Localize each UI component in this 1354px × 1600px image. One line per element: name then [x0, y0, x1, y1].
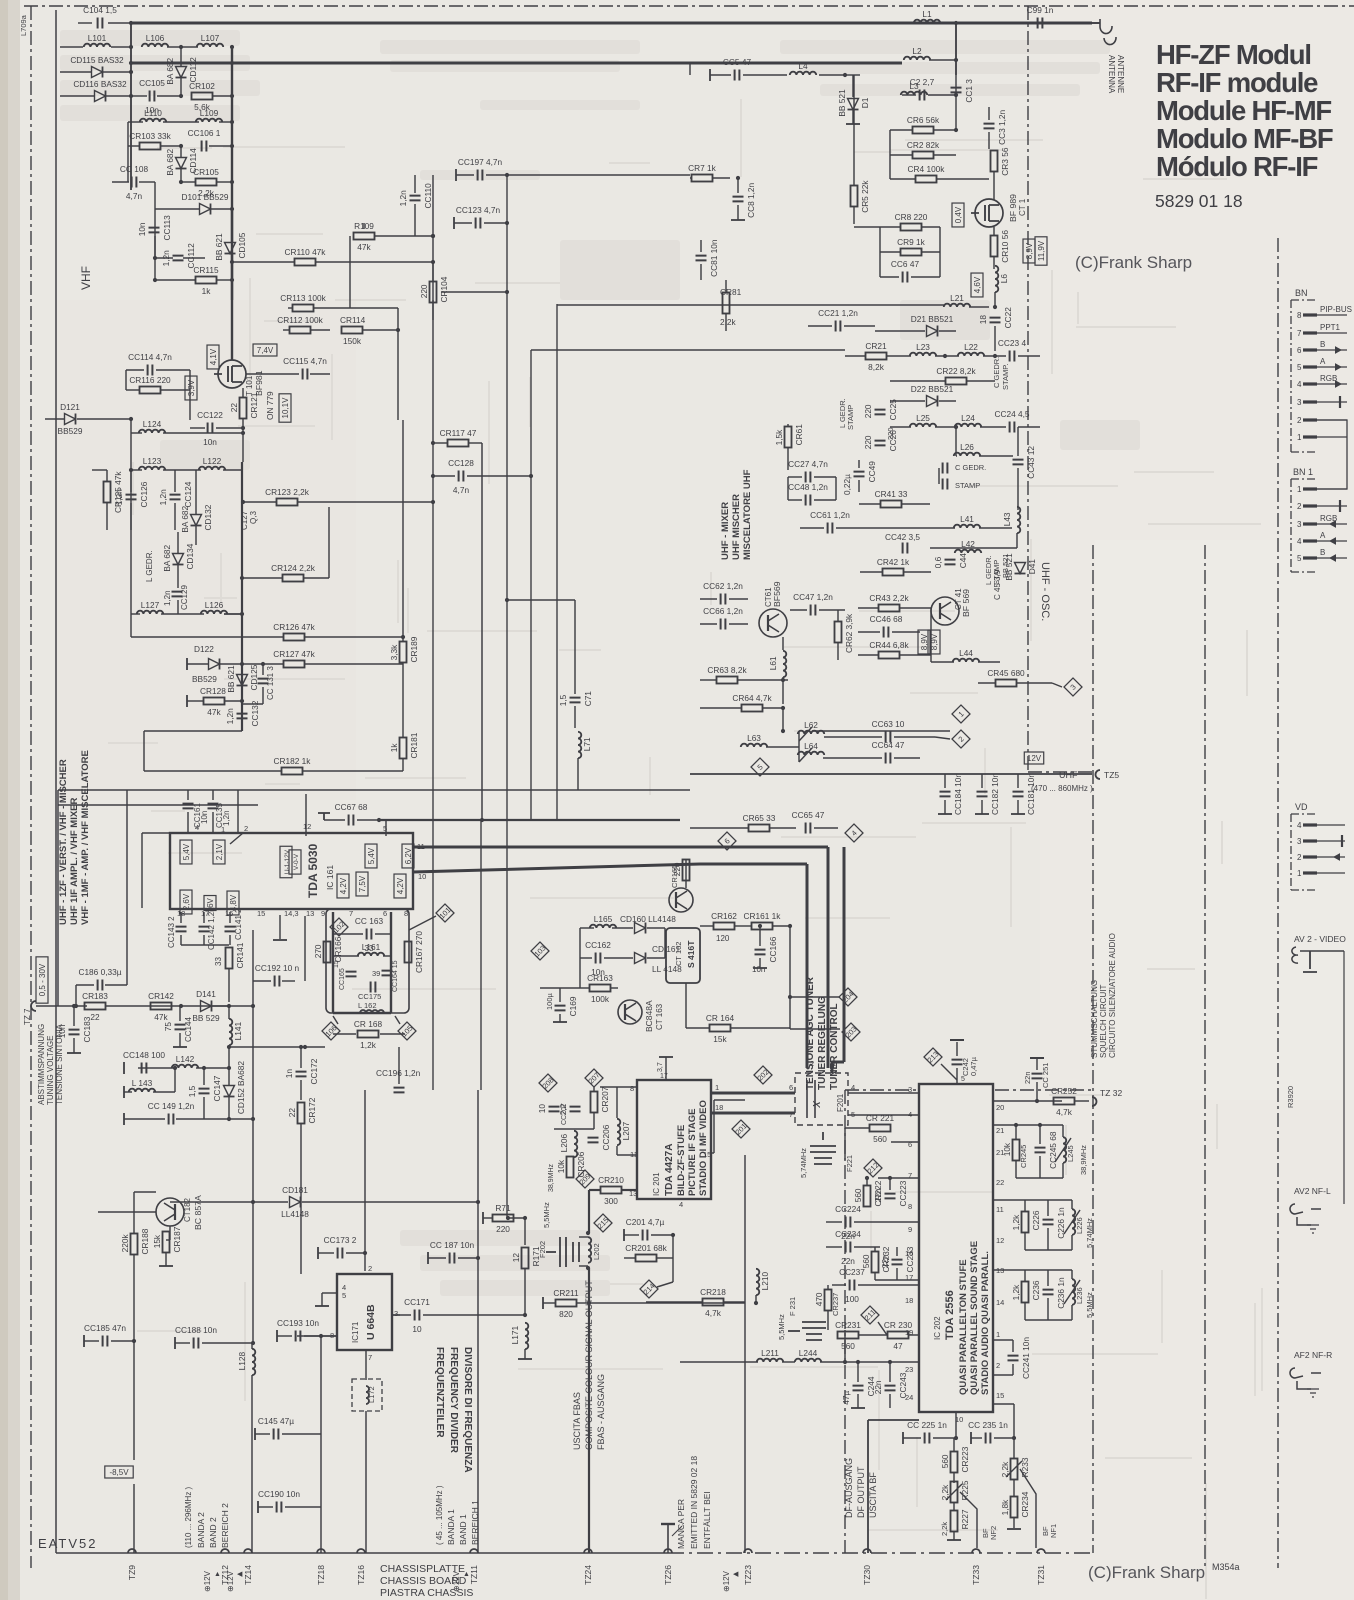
svg-text:560: 560: [873, 1134, 887, 1144]
wire: [252, 1130, 254, 1343]
junction: [240, 662, 244, 666]
resistor CR222: [864, 1186, 871, 1207]
wire: [859, 1334, 887, 1336]
wire: [320, 1336, 322, 1553]
svg-text:CR142: CR142: [148, 991, 174, 1001]
wire: [477, 1090, 479, 1278]
wire: [363, 329, 398, 331]
wire: [458, 1257, 478, 1259]
svg-text:AF2 NF-R: AF2 NF-R: [1294, 1350, 1332, 1360]
svg-text:Module HF-MF: Module HF-MF: [1156, 95, 1331, 126]
wire: [580, 927, 594, 929]
wire: [1016, 533, 1018, 548]
capacitor CC135: [208, 804, 219, 809]
resistor CR183: [85, 1003, 106, 1010]
svg-text:CR105: CR105: [193, 167, 219, 177]
wire: [848, 1114, 919, 1116]
voltage 11,9V: [1035, 237, 1047, 265]
transistor CT165: [669, 888, 693, 912]
wire: [559, 988, 561, 1002]
wire: [174, 503, 176, 530]
wire: [859, 503, 880, 505]
svg-text:CC 108: CC 108: [120, 164, 149, 174]
terminal TZ12: [220, 1549, 230, 1585]
svg-text:RF-IF module: RF-IF module: [1156, 67, 1318, 98]
junction: [781, 678, 785, 682]
wire: [130, 22, 1092, 25]
resistor CR165: [683, 860, 690, 881]
inductor L107: [197, 44, 223, 47]
wire: [689, 63, 691, 75]
wire: [379, 819, 680, 821]
junction: [179, 45, 183, 49]
diode CD132: [191, 515, 202, 526]
inductor L4: [790, 72, 816, 75]
wire: [189, 390, 191, 420]
wire: [242, 577, 282, 579]
resistor CR121: [240, 398, 247, 419]
svg-text:10k: 10k: [556, 1159, 566, 1173]
wire: [844, 1090, 846, 1553]
junction: [227, 1117, 231, 1121]
capacitor CC197: [478, 170, 483, 181]
wire: [180, 78, 182, 96]
wire: [938, 813, 952, 815]
svg-text:3: 3: [908, 1085, 912, 1094]
svg-text:10: 10: [418, 872, 426, 881]
capacitor Cgedr2: [943, 479, 948, 490]
svg-text:C169: C169: [568, 996, 578, 1016]
svg-text:CR112 100k: CR112 100k: [277, 315, 323, 325]
svg-text:1: 1: [1297, 869, 1302, 878]
svg-text:CR188: CR188: [140, 1228, 150, 1254]
wire: [456, 174, 474, 176]
wire: [889, 130, 891, 155]
junction: [401, 635, 405, 639]
svg-text:CC66 1,2n: CC66 1,2n: [703, 606, 743, 616]
wire: [253, 980, 271, 982]
svg-text:L211: L211: [761, 1348, 779, 1358]
wire: [332, 912, 334, 1013]
coil L202: [588, 1237, 591, 1263]
resistor CR188: [131, 1234, 138, 1255]
svg-text:3: 3: [1297, 398, 1302, 407]
svg-text:CR182 1k: CR182 1k: [274, 756, 312, 766]
wire: [190, 427, 205, 429]
wire: [251, 1343, 253, 1349]
wire: [574, 706, 576, 728]
wire: [557, 304, 944, 306]
wire: [195, 470, 197, 514]
test point 101: [436, 904, 454, 922]
voltage 2,1V: [213, 840, 225, 864]
svg-text:M354a: M354a: [1212, 1562, 1240, 1572]
wire: [574, 600, 576, 694]
svg-text:CR163: CR163: [587, 973, 613, 983]
wire: [154, 182, 156, 258]
capacitor CC144: [175, 1025, 186, 1030]
wire: [994, 326, 996, 351]
svg-text:4,2V: 4,2V: [396, 877, 405, 894]
svg-text:AV2 NF-L: AV2 NF-L: [1294, 1186, 1331, 1196]
wire: [1039, 1156, 1041, 1178]
capacitor CC81: [696, 256, 707, 261]
wire: [1204, 545, 1206, 1568]
wire: [735, 925, 751, 927]
capacitor CC233: [892, 1260, 903, 1265]
svg-text:ON 779: ON 779: [265, 391, 275, 420]
wire: [231, 47, 233, 360]
svg-text:NF1: NF1: [1049, 1524, 1058, 1538]
junction: [993, 354, 997, 358]
wire: [934, 154, 956, 156]
svg-text:1,2n: 1,2n: [163, 590, 172, 606]
svg-text:CR187: CR187: [172, 1226, 182, 1252]
wire: [979, 455, 1013, 457]
svg-text:CR63 8,2k: CR63 8,2k: [707, 665, 747, 675]
capacitor CC105: [150, 91, 155, 102]
resistor CR189: [400, 642, 407, 663]
wire: [302, 1201, 478, 1203]
junction: [431, 474, 435, 478]
resistor R233: [1011, 1459, 1018, 1480]
svg-text:CC241 10n: CC241 10n: [1021, 1337, 1031, 1379]
svg-text:CC173 2: CC173 2: [324, 1235, 357, 1245]
wire: [181, 181, 196, 183]
svg-text:CC106 1: CC106 1: [188, 128, 221, 138]
wire: [790, 996, 840, 998]
svg-text:-8,5V: -8,5V: [109, 1468, 129, 1477]
svg-text:BA 682: BA 682: [165, 148, 175, 175]
svg-text:L202: L202: [592, 1243, 601, 1260]
wire: [304, 916, 306, 981]
test point 213: [924, 1048, 942, 1066]
wire: [978, 661, 1000, 663]
wire: [953, 1503, 955, 1511]
transistor CT163 BC848A: [618, 1000, 642, 1024]
wire: [1047, 1228, 1049, 1250]
svg-text:2,6V: 2,6V: [182, 893, 191, 910]
capacitor CC206: [588, 1138, 599, 1143]
svg-text:CR4 100k: CR4 100k: [908, 164, 946, 174]
junction: [241, 500, 245, 504]
resonator F221: [810, 1132, 836, 1164]
AV2 NF-L jack: [1290, 1204, 1321, 1233]
junction: [431, 500, 435, 504]
svg-text:2,2k: 2,2k: [720, 317, 737, 327]
wire: [835, 477, 837, 500]
wire: [106, 503, 108, 530]
wire: [1015, 1161, 1017, 1178]
junction: [954, 425, 958, 429]
wire: [508, 1217, 525, 1219]
svg-text:UHF 1IF AMPL. / VHF MIXER: UHF 1IF AMPL. / VHF MIXER: [69, 797, 80, 925]
junction: [129, 417, 133, 421]
wire: [933, 1437, 956, 1439]
svg-text:7: 7: [1297, 329, 1302, 338]
wire: [1025, 1249, 1072, 1251]
svg-text:22n: 22n: [1023, 1071, 1032, 1084]
capacitor CC1: [951, 88, 962, 93]
svg-text:TZ31: TZ31: [1036, 1565, 1046, 1585]
svg-text:CR181: CR181: [409, 732, 419, 758]
wire: [837, 643, 839, 660]
junction: [72, 1004, 76, 1008]
inductor L1: [914, 20, 940, 23]
svg-text:2,1V: 2,1V: [215, 843, 224, 860]
svg-text:8: 8: [630, 1084, 634, 1093]
svg-text:CT 163: CT 163: [655, 1003, 664, 1030]
svg-text:ENTFÄLLT BEI: ENTFÄLLT BEI: [702, 1491, 712, 1549]
wire: [180, 935, 182, 945]
wire: [879, 227, 881, 252]
svg-text:11: 11: [996, 1205, 1004, 1214]
capacitor CC21: [836, 321, 841, 332]
junction: [319, 1334, 323, 1338]
wire: [880, 276, 899, 278]
wire: [176, 1118, 253, 1120]
wire: [324, 819, 345, 821]
wire: [163, 469, 201, 471]
svg-text:C145 47µ: C145 47µ: [258, 1416, 294, 1426]
voltage 12V: [1024, 752, 1043, 764]
wire: [993, 227, 995, 235]
transformer F201 dashed box: [795, 1073, 848, 1125]
svg-text:F221: F221: [845, 1155, 854, 1172]
svg-text:BF 989: BF 989: [1008, 194, 1018, 222]
wire: [994, 1437, 1014, 1439]
wire: [58, 789, 690, 791]
wire: [186, 695, 188, 707]
svg-text:CR183: CR183: [82, 991, 108, 1001]
junction: [129, 468, 133, 472]
capacitor CC188: [194, 1338, 199, 1349]
svg-text:TZ5: TZ5: [1104, 770, 1119, 780]
wire: [131, 432, 142, 434]
wire: [454, 222, 472, 224]
resistor CR245: [1013, 1140, 1020, 1161]
svg-text:150k: 150k: [343, 336, 362, 346]
svg-text:CR127 47k: CR127 47k: [273, 649, 315, 659]
svg-text:UHF MISCHER: UHF MISCHER: [731, 494, 742, 560]
wire: [1047, 1200, 1049, 1216]
resistor R227: [951, 1511, 958, 1532]
wire: [880, 251, 900, 253]
wire: [60, 71, 91, 73]
capacitor CC64: [886, 753, 891, 764]
svg-text:C226: C226: [1031, 1210, 1041, 1230]
capacitor CC63: [886, 732, 891, 743]
svg-text:470: 470: [814, 1292, 824, 1306]
capacitor CC235: [986, 1433, 991, 1444]
svg-text:BEREICH 2: BEREICH 2: [220, 1503, 230, 1548]
diode D41: [1015, 563, 1026, 574]
svg-text:100µ: 100µ: [545, 992, 554, 1010]
wire: [300, 1124, 302, 1274]
wire: [1036, 1058, 1038, 1070]
wire: [133, 1192, 135, 1233]
svg-text:220: 220: [419, 284, 429, 298]
wire: [782, 677, 784, 704]
svg-text:L61: L61: [768, 656, 778, 670]
wire: [246, 373, 299, 375]
wire: [241, 686, 243, 695]
svg-text:20: 20: [996, 1103, 1004, 1112]
svg-text:( 45 ... 105MHz ): ( 45 ... 105MHz ): [435, 1485, 444, 1545]
svg-text:3: 3: [394, 1309, 398, 1318]
wire: [196, 1067, 229, 1069]
svg-text:BA 682: BA 682: [162, 544, 172, 571]
wire: [759, 958, 761, 968]
svg-text:CR 164: CR 164: [706, 1013, 735, 1023]
test point 208: [539, 1074, 557, 1092]
diode CD112: [176, 67, 187, 78]
svg-text:2: 2: [244, 824, 248, 833]
wire: [950, 1039, 964, 1041]
shield box L161 L162: [326, 909, 409, 1013]
wire: [106, 95, 131, 97]
wire: [938, 468, 940, 484]
wire: [455, 169, 457, 181]
wire: [944, 800, 946, 814]
wire: [1025, 1269, 1072, 1271]
svg-text:4,6V: 4,6V: [973, 276, 982, 293]
wire: [189, 370, 191, 390]
diode D22: [927, 396, 938, 407]
svg-text:BC848A: BC848A: [644, 1000, 654, 1032]
capacitor C71: [570, 698, 581, 703]
wire: [860, 527, 955, 529]
wire: [159, 1265, 173, 1267]
svg-text:BANDA 2: BANDA 2: [196, 1512, 206, 1548]
svg-text:CC243: CC243: [898, 1372, 908, 1398]
junction: [431, 234, 435, 238]
wire: [357, 819, 379, 821]
wire: [432, 444, 434, 1090]
wire: [867, 1420, 869, 1553]
junction: [240, 699, 244, 703]
wire: [787, 424, 789, 426]
svg-text:F201: F201: [836, 1093, 845, 1112]
svg-text:CC175: CC175: [358, 992, 381, 1001]
svg-text:CR189: CR189: [409, 636, 419, 662]
diode D122: [209, 659, 220, 670]
wire: [154, 258, 156, 280]
capacitor CC182: [977, 792, 988, 797]
svg-text:⊕12V: ⊕12V: [203, 1570, 212, 1592]
svg-text:CC128: CC128: [448, 458, 474, 468]
svg-text:15: 15: [257, 909, 265, 918]
svg-text:L6: L6: [999, 274, 1009, 284]
wire: [1028, 771, 1093, 773]
wire: [92, 469, 107, 471]
BN pin6 arrow: [1335, 346, 1342, 354]
svg-text:D121: D121: [60, 402, 80, 412]
junction: [505, 290, 509, 294]
wire: [953, 1438, 955, 1451]
BN pin3 stub: [1339, 396, 1341, 408]
svg-text:CR234: CR234: [1020, 1491, 1030, 1517]
wire: [1013, 1518, 1015, 1528]
svg-text:10n: 10n: [203, 437, 217, 447]
wire: [254, 1428, 256, 1440]
svg-text:STADIO AUDIO QUASI PARALL.: STADIO AUDIO QUASI PARALL.: [980, 1251, 991, 1395]
capacitor C99: [1038, 18, 1043, 29]
voltage 5,4V: [365, 844, 377, 868]
test point 102: [330, 918, 348, 936]
wire: [130, 419, 132, 614]
wire: [224, 613, 242, 615]
svg-text:CC126: CC126: [139, 481, 149, 507]
wire: [412, 846, 828, 849]
voltage 3,9V: [185, 376, 197, 400]
wire: [1017, 468, 1019, 510]
svg-text:CR223: CR223: [960, 1446, 970, 1472]
voltage 0,5-30V: [36, 957, 48, 1003]
svg-text:15: 15: [996, 1391, 1004, 1400]
wire: [931, 661, 954, 663]
svg-text:QUASI PARALLEL SOUND STAGE: QUASI PARALLEL SOUND STAGE: [969, 1241, 980, 1395]
wire: [554, 1128, 594, 1130]
wire: [858, 460, 860, 468]
svg-text:CC5 47: CC5 47: [723, 57, 752, 67]
junction: [888, 1360, 892, 1364]
svg-text:TZ33: TZ33: [971, 1565, 981, 1585]
svg-text:CD112: CD112: [188, 57, 198, 83]
svg-text:C186 0,33µ: C186 0,33µ: [78, 967, 121, 977]
capacitor C186: [98, 980, 103, 991]
svg-text:2: 2: [1297, 416, 1302, 425]
wire: [237, 790, 239, 833]
capacitor CC175: [371, 982, 376, 993]
wire: [980, 426, 1006, 428]
svg-text:CR21: CR21: [865, 341, 887, 351]
resistor CR103: [140, 143, 161, 150]
wire: [273, 939, 287, 941]
wire: [241, 701, 243, 710]
resistor CR126: [284, 634, 305, 641]
resistor CR161: [752, 923, 773, 930]
svg-text:CC223: CC223: [898, 1180, 908, 1206]
wire: [67, 1052, 81, 1054]
junction: [377, 818, 381, 822]
voltage -8,5V: [105, 1466, 133, 1478]
inductor L206: [574, 1131, 577, 1157]
wire: [507, 174, 690, 176]
svg-text:CC64 47: CC64 47: [872, 740, 905, 750]
wire: [323, 813, 325, 820]
wire: [647, 927, 665, 929]
resistor CR21: [866, 353, 887, 360]
wire: [375, 933, 391, 935]
svg-text:CR5 22k: CR5 22k: [860, 180, 870, 213]
svg-text:L42: L42: [961, 539, 975, 549]
wire: [483, 1217, 493, 1219]
wire: [123, 1062, 125, 1074]
test point 209: [576, 1170, 594, 1188]
bleed-through text blobs: [60, 30, 1140, 1296]
resistor CR104: [430, 282, 437, 303]
svg-text:1,5: 1,5: [558, 694, 568, 706]
test point 204: [839, 988, 857, 1006]
capacitor CC185: [103, 1336, 108, 1347]
junction: [586, 1231, 590, 1235]
inductor L123: [139, 467, 165, 470]
svg-text:CR44 6,8k: CR44 6,8k: [869, 640, 909, 650]
inductor L63: [741, 744, 767, 747]
svg-text:CD125: CD125: [249, 664, 259, 690]
wire: [187, 790, 189, 800]
